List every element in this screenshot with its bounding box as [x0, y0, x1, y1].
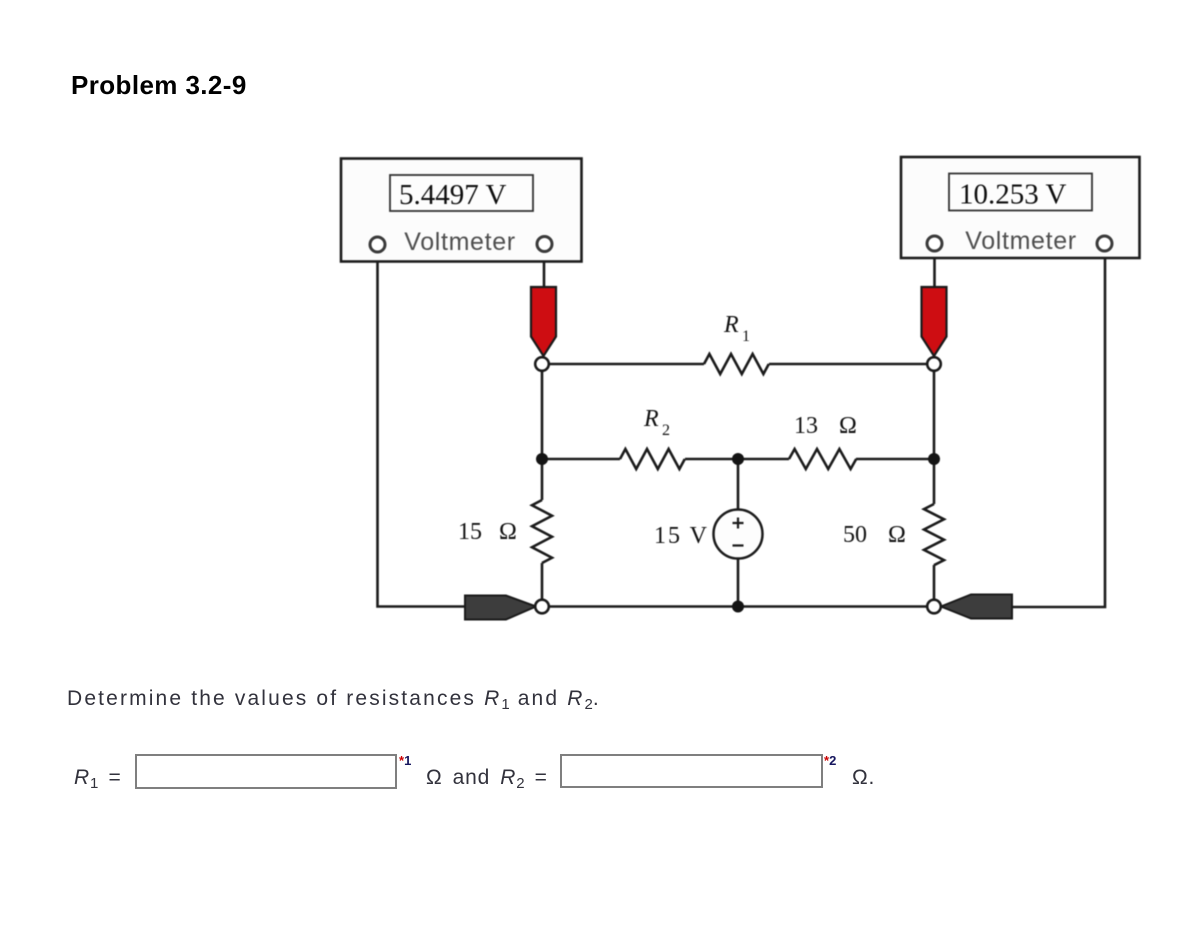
voltmeter VM2 body	[901, 157, 1140, 258]
node F (bottom left, open)	[535, 600, 549, 614]
svg-text:R: R	[643, 406, 659, 432]
voltage source V1	[714, 510, 763, 559]
voltmeter VM2 positive terminal	[927, 236, 942, 251]
svg-text:1: 1	[742, 328, 750, 345]
wire VM2 negative lead (right voltmeter down to black probe)	[1011, 250, 1105, 607]
label R2	[643, 406, 670, 439]
voltmeter VM1 label	[404, 228, 515, 256]
label 15 V (source value)	[654, 523, 709, 549]
wire 15 ohm resistor to node F	[541, 563, 544, 600]
black probe P3	[465, 596, 536, 620]
voltmeter VM1 display	[390, 175, 533, 211]
voltmeter VM2 negative terminal	[1097, 236, 1112, 251]
node H (bottom right, open)	[927, 600, 941, 614]
wire junction D to source V1 top	[737, 459, 740, 510]
footnote *2	[824, 753, 836, 768]
node B (top right, open)	[927, 357, 941, 371]
junction G	[732, 601, 744, 613]
svg-text:10.253 V: 10.253 V	[959, 179, 1066, 211]
label 50 ohm	[843, 522, 906, 548]
wire VM1 positive lead to red probe P1	[543, 250, 546, 288]
label R1	[723, 312, 750, 345]
wire top-right: R1 to node B	[769, 363, 928, 366]
voltmeter VM2 reading 10.253 V	[959, 179, 1066, 211]
resistor R1	[704, 354, 769, 374]
wire VM1 negative lead (left voltmeter down to black probe)	[378, 250, 467, 607]
answer input box 1	[135, 754, 397, 789]
wire source V1 bottom to node G	[737, 558, 740, 607]
wire top-left: node A to R1	[548, 363, 704, 366]
resistor 15 ohm (vertical)	[532, 500, 552, 563]
node A (top left, open)	[535, 357, 549, 371]
svg-text:50: 50	[843, 522, 867, 548]
svg-text:2: 2	[662, 422, 670, 439]
wire 50 ohm resistor to node H	[933, 565, 936, 600]
page title	[71, 72, 247, 98]
black probe P4	[941, 595, 1012, 619]
svg-text:Voltmeter: Voltmeter	[965, 227, 1076, 255]
answer input box 2	[560, 754, 823, 788]
prompt text	[67, 687, 601, 713]
svg-text:15 V: 15 V	[654, 523, 709, 549]
svg-text:R: R	[723, 312, 739, 338]
svg-text:Voltmeter: Voltmeter	[404, 228, 515, 256]
svg-text:15: 15	[458, 519, 482, 545]
wire VM2 positive lead to red probe P2	[933, 250, 936, 288]
label 13 ohm	[794, 413, 857, 439]
red probe P1	[531, 287, 556, 356]
answer row	[74, 766, 122, 792]
resistor 50 ohm (vertical)	[924, 504, 944, 565]
red probe P2	[922, 287, 947, 356]
svg-text:Ω: Ω	[888, 522, 906, 548]
junction C	[536, 453, 548, 465]
voltmeter VM1 positive terminal	[537, 237, 552, 252]
wire R2 to junction D	[685, 458, 738, 461]
resistor R2	[620, 449, 685, 469]
svg-text:13: 13	[794, 413, 818, 439]
resistor 13 ohm	[789, 449, 856, 469]
voltmeter VM1 body	[341, 159, 582, 262]
wire junction E down to 50 ohm resistor	[933, 459, 936, 504]
wire junction D to 13 ohm resistor	[738, 458, 789, 461]
svg-text:5.4497 V: 5.4497 V	[399, 179, 506, 211]
voltmeter VM1 reading 5.4497 V	[399, 179, 506, 211]
svg-text:Ω: Ω	[839, 413, 857, 439]
junction D	[732, 453, 744, 465]
voltmeter VM2 label	[965, 227, 1076, 255]
label 15 ohm	[458, 519, 517, 545]
svg-text:Ω: Ω	[499, 519, 517, 545]
junction E	[928, 453, 940, 465]
footnote *1	[399, 753, 411, 768]
wire junction C down to 15 ohm resistor	[541, 459, 544, 500]
wire bottom bus: node F to node H	[549, 605, 928, 608]
voltmeter VM1 negative terminal	[370, 237, 385, 252]
wire left vertical: node A to junction C	[541, 371, 544, 460]
wire junction C to R2	[542, 458, 620, 461]
voltmeter VM2 display	[949, 174, 1092, 211]
wire 13 ohm resistor to junction E	[856, 458, 934, 461]
wire right vertical: node B to junction E	[933, 371, 936, 460]
